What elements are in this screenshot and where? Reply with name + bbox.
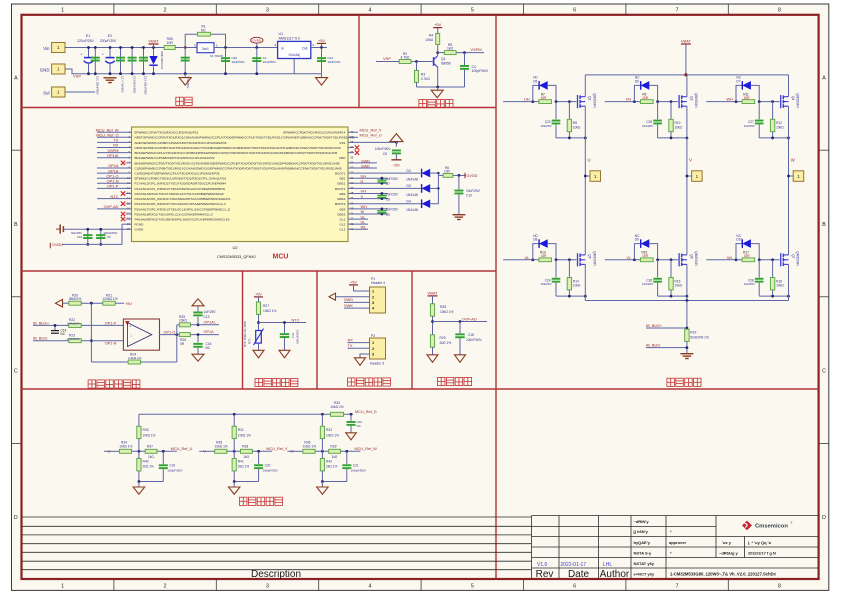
svg-text:10kΩ: 10kΩ <box>179 318 187 322</box>
svg-text:C6: C6 <box>383 152 387 156</box>
net label IB_BUS- amp <box>33 336 49 341</box>
svg-text:Q4: Q4 <box>791 96 795 100</box>
svg-text:B: B <box>14 222 18 228</box>
capacitor C28 102/25V <box>744 260 764 296</box>
ground symbol under RT1 <box>253 350 264 358</box>
svg-text:QM3004N: QM3004N <box>796 251 800 266</box>
MCU pin 13 no-connect X <box>121 191 132 195</box>
svg-text:®: ® <box>791 520 793 524</box>
wire source bottom <box>658 295 687 297</box>
svg-text:5: 5 <box>471 8 474 14</box>
svg-text:Q3: Q3 <box>689 96 693 100</box>
svg-text:1uF/25V: 1uF/25V <box>204 310 217 314</box>
resistor R14 10kΩ gate pulldown <box>567 260 581 296</box>
high-side cluster UH <box>503 76 596 140</box>
svg-text:IB_BUS+: IB_BUS+ <box>33 320 50 325</box>
net label OP1-N <box>105 342 117 346</box>
svg-text:RT1: RT1 <box>248 338 252 344</box>
svg-text:D10: D10 <box>736 238 742 242</box>
ground symbol under C34 <box>179 74 191 85</box>
svg-text:BKIN/EPWM4/CCP1A/TXD1/RXD1/C1P: BKIN/EPWM4/CCP1A/TXD1/RXD1/C1P0/BKIN/PB1… <box>135 151 338 155</box>
svg-text:1kΩ: 1kΩ <box>332 455 338 459</box>
capacitor C4 100pF/50V <box>460 53 489 87</box>
MCU pin 3 net TX <box>97 138 132 143</box>
regulator K1 3w1 <box>194 43 223 58</box>
diode D1 SMF18CA <box>149 46 164 75</box>
wire BEMF V bottom <box>234 481 258 483</box>
svg-text:1kΩ: 1kΩ <box>243 455 249 459</box>
svg-text:P21/AN13/OP1_P/RXD1/TXD1/RXD0/: P21/AN13/OP1_P/RXD1/TXD1/RXD0/SCL0/CCP1B… <box>135 187 226 191</box>
svg-text:2: 2 <box>372 347 374 351</box>
svg-text:102/25V: 102/25V <box>744 124 755 128</box>
capacitor C16 9uF/25V <box>71 228 92 246</box>
svg-text:102/25V: 102/25V <box>540 124 551 128</box>
MCU pin 15 no-connect X <box>121 202 132 206</box>
svg-text:SWK: SWK <box>361 163 370 168</box>
svg-text:WH: WH <box>726 97 733 102</box>
svg-text:1kΩ: 1kΩ <box>148 455 154 459</box>
MCU pin net W <box>348 209 388 215</box>
svg-text:10uF/50V: 10uF/50V <box>232 60 245 64</box>
header P1 Header4 <box>370 277 386 313</box>
svg-text:Q6: Q6 <box>689 254 693 258</box>
ground symbol under C10 <box>452 215 465 220</box>
wire shunt column <box>686 301 688 330</box>
resistor R32 10kΩ 1% to rail <box>320 414 339 451</box>
low-side cluster VL <box>605 234 698 298</box>
BEMF cluster U phase input <box>104 449 120 454</box>
net label VH gate input <box>605 97 641 103</box>
wire source to bottom rail <box>686 270 688 296</box>
svg-text:byQAE'y: byQAE'y <box>634 540 651 545</box>
title block revision row <box>537 562 612 568</box>
capacitor C18 100nF/50V <box>455 320 482 355</box>
svg-text:10kΩ: 10kΩ <box>675 125 683 129</box>
svg-text:10kΩ 1%: 10kΩ 1% <box>303 444 316 448</box>
net label UH gate input <box>503 97 539 103</box>
svg-text:2: 2 <box>164 584 167 590</box>
ground symbol under R29 <box>427 355 438 363</box>
svg-text:E1: E1 <box>86 34 90 38</box>
svg-text:120kΩ 1%: 120kΩ 1% <box>102 297 117 301</box>
svg-text:10kΩ 1%: 10kΩ 1% <box>215 444 228 448</box>
svg-text:10kΩ 1%: 10kΩ 1% <box>326 433 339 437</box>
wire IB_BUS+ row <box>33 324 123 326</box>
svg-text:1: 1 <box>372 341 374 345</box>
svg-text:ADET/EPWM0/CCP0B/CCP0A/RXD0/TX: ADET/EPWM0/CCP0B/CCP0A/RXD0/TXD1/RXD1/C1… <box>135 141 227 145</box>
net label OP1A <box>204 330 215 334</box>
svg-text:BKIN/EPWM3/CCP0A/TXD0/TXD1/RXD: BKIN/EPWM3/CCP0A/TXD0/TXD1/RXD1/C1P2/ANS… <box>135 161 341 165</box>
svg-text:P26/AN18/RXD1/TXD1/SPI0_CLK/CC: P26/AN18/RXD1/TXD1/SPI0_CLK/CCP0A/EPWM4/… <box>135 212 214 216</box>
svg-text:+5V: +5V <box>393 162 400 167</box>
svg-text:C18: C18 <box>468 333 474 337</box>
svg-text:GVDD: GVDD <box>467 174 478 178</box>
resistor R12 10kΩ gate pulldown <box>770 102 784 138</box>
svg-text:100pF/50V: 100pF/50V <box>263 469 279 473</box>
svg-text:R39: R39 <box>330 444 336 448</box>
svg-text:C13: C13 <box>204 315 210 319</box>
svg-text:D3: D3 <box>407 184 411 188</box>
wire drain to VBAT rail <box>788 75 790 92</box>
regulator U1 AMS1117-5.0 <box>274 32 314 59</box>
wire gate node <box>658 101 678 103</box>
resistor R19 5mΩ/2W shunt <box>685 329 709 354</box>
svg-text:R42: R42 <box>326 460 332 464</box>
net label GVDD right <box>465 173 478 178</box>
svg-text:100nF/50V: 100nF/50V <box>296 330 300 344</box>
label temp-sensor section 温度传感器 <box>255 378 298 386</box>
svg-text:100nF/50V: 100nF/50V <box>466 338 482 342</box>
svg-text:Sel: Sel <box>43 91 49 96</box>
net flag arrow P1 pin2 <box>329 293 370 300</box>
MCU pin 21 net WL <box>348 224 368 229</box>
svg-text:C: C <box>14 369 18 375</box>
svg-text:U1: U1 <box>279 32 284 36</box>
svg-text:~dRtN'y: ~dRtN'y <box>634 519 650 524</box>
svg-text:4.7kΩ: 4.7kΩ <box>401 56 410 60</box>
svg-text:2kΩ 1%: 2kΩ 1% <box>143 465 154 469</box>
svg-text:QM3004N: QM3004N <box>796 93 800 108</box>
wire source to bottom rail <box>584 112 586 138</box>
capacitor C26 102/25V <box>642 260 662 296</box>
svg-text:MCU_Ref_U: MCU_Ref_U <box>360 133 382 138</box>
net label MCU_Ref_U <box>171 447 193 451</box>
svg-text:+5V: +5V <box>434 22 442 27</box>
svg-text:+: + <box>80 53 82 57</box>
svg-text:10kΩ 1%: 10kΩ 1% <box>440 310 454 314</box>
svg-text:~dRt&ig y: ~dRt&ig y <box>719 550 739 555</box>
resistor R31 10kΩ 1% to rail <box>232 414 251 451</box>
diode D7 NC bypass <box>736 76 759 102</box>
svg-text:OVP-AD: OVP-AD <box>462 317 477 321</box>
capacitor C11 100nF/50V <box>91 46 100 95</box>
svg-text:C16: C16 <box>77 235 83 239</box>
svg-text:2: 2 <box>164 8 167 14</box>
svg-text:1: 1 <box>61 8 64 14</box>
MCU pin net WH <box>348 204 388 210</box>
MCU pin net UH <box>348 173 388 179</box>
svg-text:U: U <box>588 158 591 163</box>
ground symbol BEMF V <box>228 482 240 495</box>
svg-text:V: V <box>361 194 364 199</box>
svg-text:P25/AN17/OP0_P/RXD1/TXD1/SCL3/: P25/AN17/OP0_P/RXD1/TXD1/SCL3/SPI0_SS/CC… <box>135 207 231 211</box>
svg-text:10kΩ: 10kΩ <box>675 284 683 288</box>
svg-text:4: 4 <box>368 8 371 14</box>
capacitor C34 4.7uF/50V <box>181 48 190 89</box>
MCU pin 4 net RX <box>97 143 132 148</box>
svg-text:100pF/50V: 100pF/50V <box>351 469 367 473</box>
MCU U2 body <box>132 127 349 242</box>
svg-text:BKIN/EPWM1/CCP1B/RXD0/TXD1/RXD: BKIN/EPWM1/CCP1B/RXD0/TXD1/RXD1/C1P1/AN2… <box>135 156 215 160</box>
svg-text:P2: P2 <box>371 334 375 338</box>
svg-text:NTC: NTC <box>292 317 300 322</box>
title block grid <box>22 516 819 579</box>
svg-text:S8050: S8050 <box>441 62 451 66</box>
op-amp U3 box <box>123 319 159 350</box>
wire phase column U <box>584 138 586 244</box>
svg-text:EPWM5/CCP0A/TXD1/RXD1/CUR2/AN1: EPWM5/CCP0A/TXD1/RXD1/CUR2/AN16/P15 <box>135 131 199 135</box>
svg-text:C17: C17 <box>291 333 295 339</box>
capacitor C3 100nF/50V <box>128 46 137 93</box>
capacitor C17 100nF/50V <box>280 321 300 350</box>
MCU pin 11 net OP1-N <box>97 179 132 184</box>
svg-text:Rev: Rev <box>536 569 554 580</box>
capacitor C16 NC <box>193 335 211 355</box>
svg-text:R19: R19 <box>690 330 696 334</box>
title block filename <box>670 572 777 577</box>
svg-text:R32: R32 <box>326 428 332 432</box>
svg-text:OP1AL: OP1AL <box>204 320 216 324</box>
net label VBAT power stage <box>681 39 692 75</box>
svg-text:VBAT: VBAT <box>681 39 692 44</box>
svg-text:R38: R38 <box>242 444 248 448</box>
svg-text:GND: GND <box>40 68 50 73</box>
wire source bottom <box>658 137 687 139</box>
wire gate node <box>556 259 576 261</box>
svg-text:NTC: NTC <box>111 194 119 199</box>
svg-text:10kΩ: 10kΩ <box>573 284 581 288</box>
svg-text:4.7kΩ: 4.7kΩ <box>421 77 430 81</box>
svg-text:GB1: GB1 <box>339 177 345 181</box>
wire source to bottom rail <box>584 270 586 296</box>
transistor Q3 QM3004N <box>679 92 698 112</box>
svg-text:C10: C10 <box>466 194 472 198</box>
diode D3 1N4148 <box>406 184 438 197</box>
svg-text:5: 5 <box>471 584 474 590</box>
resistor R28 10kΩ 1% <box>430 304 453 335</box>
transistor Q1 S8050 <box>434 56 451 68</box>
svg-text:1N4148: 1N4148 <box>406 177 418 181</box>
resistor R35 10kΩ 1% <box>215 440 253 453</box>
svg-text:IB_BUS+: IB_BUS+ <box>646 323 663 328</box>
net label OP1-O <box>164 330 176 334</box>
wire MCU to diode D3 <box>348 187 421 189</box>
svg-text:3: 3 <box>266 584 269 590</box>
transistor Q7 QM3004N <box>781 250 800 270</box>
resistor R27 10kΩ 1% <box>256 302 276 330</box>
wire U1 gnd <box>293 59 295 74</box>
svg-text:P23/AN15/OP0_O/RXD1/TXD2/SDA2/: P23/AN15/OP0_O/RXD1/TXD2/SDA2/RTS1/CCP0B… <box>135 197 232 201</box>
power flag left of GVDD rail <box>56 225 63 234</box>
svg-text:2022-01-17: 2022-01-17 <box>561 562 587 568</box>
MCU pin 9 net OP1A <box>97 168 132 173</box>
svg-text:OP1-N: OP1-N <box>105 342 117 346</box>
ground symbol speed section <box>431 87 443 98</box>
svg-text:10uF/25V: 10uF/25V <box>466 189 481 193</box>
svg-text:10kΩ: 10kΩ <box>776 125 784 129</box>
resistor R11 15R gate <box>742 92 755 103</box>
resistor R9 15R gate <box>641 92 654 103</box>
svg-text:EPWM4/CCP0A/TXD1/RXD1/CUR1/AN9: EPWM4/CCP0A/TXD1/RXD1/CUR1/AN9/P14 <box>283 131 345 135</box>
svg-text:35: 35 <box>350 155 354 159</box>
MCU internal pin names <box>135 131 355 232</box>
svg-text:C8: C8 <box>386 197 390 201</box>
svg-text:BOOT3: BOOT3 <box>335 202 346 206</box>
power flag +5V P1 <box>349 279 370 291</box>
svg-text:OP1A: OP1A <box>204 330 215 334</box>
svg-text:QM3004N: QM3004N <box>694 93 698 108</box>
net label OP1AL <box>204 320 216 324</box>
svg-text:OP1AI: OP1AI <box>107 153 118 158</box>
capacitor C23 102/25V <box>540 102 560 138</box>
capacitor C21 100pF/50V <box>342 451 367 481</box>
svg-text:VH: VH <box>626 97 632 102</box>
wire phase column W <box>788 138 790 244</box>
MCU pin 34 net SWD <box>348 158 377 163</box>
svg-text:102/25V: 102/25V <box>744 282 755 286</box>
svg-text:Date: Date <box>568 569 590 580</box>
wire source bottom <box>759 137 788 139</box>
capacitor C10 10uF/25V <box>454 175 480 214</box>
svg-text:1: 1 <box>61 584 64 590</box>
svg-text:1uF/25V: 1uF/25V <box>386 192 399 196</box>
svg-text:QM3004N: QM3004N <box>593 93 597 108</box>
svg-text:10kΩ 1%: 10kΩ 1% <box>238 433 251 437</box>
svg-text:OP1-O: OP1-O <box>164 330 176 334</box>
svg-text:2022/1/17 f g N: 2022/1/17 f g N <box>748 550 776 555</box>
svg-text:NRST/EPWM1/CCP0B/TXD0/THD1/RXD: NRST/EPWM1/CCP0B/TXD0/THD1/RXD1/AN27/TXD… <box>135 146 341 150</box>
wire drain to phase node <box>788 244 790 250</box>
MCU pin 6 net OP1AI <box>97 153 132 158</box>
MCU pin 16 net OVP-AD <box>97 204 132 209</box>
resistor R21 120kΩ 1% <box>102 293 124 305</box>
svg-text:R4: R4 <box>429 34 433 38</box>
header P2 Header3 <box>370 334 386 366</box>
ground symbol under C22 <box>346 433 357 440</box>
svg-text:C: C <box>822 369 826 375</box>
svg-text:10R: 10R <box>444 170 451 174</box>
svg-text:OVP-AD: OVP-AD <box>104 204 119 209</box>
transistor Q4 QM3004N <box>781 92 800 112</box>
svg-text:R41: R41 <box>238 460 244 464</box>
svg-text:Out: Out <box>302 46 308 50</box>
svg-text:10R: 10R <box>167 41 174 45</box>
MCU pin 2 net MCU_Ref_O <box>96 133 131 138</box>
net label VL gate input <box>605 255 641 261</box>
net label MCU_Ref_W <box>355 447 378 451</box>
svg-text:P24/AN16/OP0_N/RXD1/TXD1/SDA3/: P24/AN16/OP0_N/RXD1/TXD1/SDA3/CCP1A/EPWM… <box>135 202 226 206</box>
svg-text:In: In <box>281 46 284 50</box>
connector V output <box>686 171 703 182</box>
svg-text:102/25V: 102/25V <box>642 282 653 286</box>
net label RX uart <box>348 337 370 342</box>
svg-text:6: 6 <box>573 8 576 14</box>
svg-text:OP1-P: OP1-P <box>107 184 119 189</box>
svg-text:A: A <box>14 75 18 81</box>
label uart-program section 串口与烧录 <box>348 378 391 386</box>
svg-text:Vin: Vin <box>43 46 50 51</box>
resistor R3 4.7kΩ <box>415 62 431 88</box>
connector W output <box>787 171 804 182</box>
resistor R30 10kΩ 1% to rail <box>137 414 156 451</box>
net label TX uart <box>348 343 370 348</box>
svg-text:15R: 15R <box>541 96 548 100</box>
svg-text:10kΩ: 10kΩ <box>776 284 784 288</box>
label power-supply section 电源 <box>176 97 192 105</box>
svg-text:C19: C19 <box>169 463 175 467</box>
net label V phase <box>689 158 692 163</box>
wire P2 pin3 ground <box>360 354 370 358</box>
svg-text:2kΩ 1%: 2kΩ 1% <box>326 465 337 469</box>
svg-text:R3: R3 <box>421 73 425 77</box>
wire R2 to Q1 base <box>411 61 433 63</box>
power flag +5V under C6 <box>391 160 401 168</box>
wire U1 out to +5V <box>311 47 327 49</box>
net label IB_BUS+ <box>646 323 688 330</box>
svg-text:[j h6N'y: [j h6N'y <box>634 529 649 534</box>
MCU pin 39 net MCU_Ref_U <box>348 133 382 138</box>
wire R40 to 3w1 <box>175 47 197 49</box>
svg-text:15R: 15R <box>744 96 751 100</box>
label power-stage section 功率电路 <box>667 378 701 386</box>
svg-text:BOOT1: BOOT1 <box>335 171 346 175</box>
svg-text:D5: D5 <box>533 80 537 84</box>
svg-text:15R: 15R <box>642 254 649 258</box>
svg-text:GBS2: GBS2 <box>337 197 345 201</box>
net label GVDD ellipse <box>251 37 263 47</box>
net label W phase <box>791 158 795 163</box>
svg-text:U2: U2 <box>233 245 239 250</box>
MCU pin 8 net OP1A <box>97 163 132 168</box>
capacitor C9 1uF/25V bootstrap <box>377 208 398 217</box>
capacitor C2 4.7uF/50V <box>116 46 125 93</box>
wire source to bottom rail <box>788 112 790 138</box>
resistor R6 10R <box>438 166 466 177</box>
ground symbol shunt <box>680 354 693 359</box>
resistor R33 10kΩ 1% <box>330 401 344 416</box>
svg-text:Gnd Adj: Gnd Adj <box>289 53 301 57</box>
svg-text:V1.0: V1.0 <box>537 562 548 568</box>
wire Q1 collector <box>437 53 439 56</box>
svg-text:V: V <box>689 158 692 163</box>
wire drain to VBAT rail <box>686 75 688 92</box>
transistor Q2 QM3004N <box>578 92 597 112</box>
resistor R20 36kΩ 1% <box>69 293 103 305</box>
wire source bottom <box>556 137 585 139</box>
svg-text:GL3: GL3 <box>340 228 346 232</box>
MCU pin 1 net MCU_Ref_W <box>96 127 132 132</box>
capacitor C8 1uF/25V bootstrap <box>377 192 398 201</box>
svg-text:100pF/50V: 100pF/50V <box>167 469 183 473</box>
wire VSP to R2 <box>376 61 399 63</box>
MCU pin 7 no-connect X <box>121 161 132 165</box>
svg-text:GBS3: GBS3 <box>337 212 345 216</box>
power flag +5V speed <box>433 22 442 28</box>
svg-text:8: 8 <box>778 8 781 14</box>
label speed-signal section 调速信号 <box>419 99 453 107</box>
svg-text:MCU_Ref_U: MCU_Ref_U <box>171 447 193 451</box>
net label WL gate input <box>706 255 742 261</box>
power flag +5V output <box>317 38 326 49</box>
svg-text:SWD: SWD <box>344 297 353 302</box>
ground symbol under C18 <box>455 355 466 363</box>
wire MCU pin19 PGND <box>122 223 132 225</box>
svg-text:5mΩ/2W 1%: 5mΩ/2W 1% <box>690 335 709 339</box>
ground symbol BEMF U <box>133 482 145 495</box>
svg-text:Q2: Q2 <box>588 96 592 100</box>
svg-text:R28: R28 <box>440 305 446 309</box>
title block Description <box>251 569 301 580</box>
thermistor RT1 NTC <box>243 321 264 350</box>
svg-text:3: 3 <box>372 353 374 357</box>
wire VBAT top rail <box>585 74 788 76</box>
svg-text:C7: C7 <box>386 182 390 186</box>
svg-text:+5V: +5V <box>125 301 132 306</box>
capacitor C6 100nF/50V <box>375 147 401 160</box>
label bus-detect section 母线检测 <box>437 377 471 385</box>
svg-text:6: 6 <box>573 584 576 590</box>
svg-text:100pF/50V: 100pF/50V <box>472 69 489 73</box>
